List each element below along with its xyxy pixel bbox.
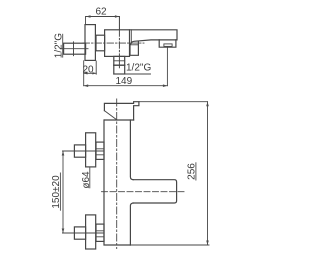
- top union pipe: [74, 145, 85, 157]
- top union flange: [86, 133, 96, 167]
- svg-text:1/2"G: 1/2"G: [54, 33, 65, 58]
- internal vertical line / outlet axis: [118, 17, 120, 30]
- pipe centerline: [61, 48, 88, 50]
- body right edge upper: [130, 120, 133, 180]
- connector: [96, 35, 105, 51]
- svg-text:62: 62: [95, 7, 107, 18]
- wall union pipe: [64, 43, 86, 54]
- handle lever: [104, 102, 138, 120]
- dim 149 arrows: [84, 84, 168, 87]
- dim 20: [84, 61, 97, 86]
- spout arm (front view): [133, 180, 177, 203]
- svg-text:1/2"G: 1/2"G: [126, 63, 151, 74]
- aerator inner: [164, 44, 172, 47]
- underline 1/2"G rotated: [62, 34, 64, 58]
- dim 150+-20 line: [62, 151, 64, 233]
- aerator outer: [159, 40, 176, 47]
- body (top view): [105, 30, 130, 57]
- underline o64 leader: [89, 167, 91, 188]
- top union axis: [63, 150, 104, 152]
- dim 150 arrows: [62, 151, 65, 233]
- bottom union flange: [86, 215, 96, 249]
- svg-text:150±20: 150±20: [51, 175, 62, 209]
- bottom union nut lines: [96, 231, 104, 237]
- wall plate: [85, 25, 95, 61]
- top union nut lines: [96, 149, 104, 155]
- outlet thread lines: [114, 60, 125, 62]
- underline 150+-20: [59, 173, 61, 211]
- dim 62 line: [86, 17, 120, 30]
- junction box under spout: [130, 42, 138, 56]
- dim 256 line: [130, 102, 209, 245]
- bottom union pipe: [74, 227, 85, 239]
- body (front view): [104, 120, 130, 245]
- main centerline: [83, 42, 144, 44]
- handle diagonal: [104, 111, 117, 120]
- underline 256: [195, 162, 197, 180]
- outlet label underline: [114, 73, 151, 75]
- svg-text:149: 149: [115, 76, 132, 87]
- vertical centerline: [116, 99, 118, 249]
- dim 62 arrows: [86, 15, 119, 18]
- pipe center tick: [73, 42, 75, 56]
- junction box joint line: [130, 44, 138, 46]
- arm centerline: [102, 191, 185, 193]
- spout joint line: [130, 30, 132, 44]
- dim 149 line: [84, 47, 168, 86]
- dim 256 arrows: [206, 102, 209, 245]
- svg-text:20: 20: [82, 64, 94, 75]
- bottom union axis: [63, 232, 104, 234]
- handle base line: [105, 119, 134, 121]
- body right edge lower: [130, 203, 133, 245]
- top union nut: [96, 142, 104, 159]
- bottom union nut: [96, 224, 104, 241]
- outlet under body: [114, 56, 125, 74]
- spout (top view): [130, 30, 178, 45]
- svg-text:256: 256: [187, 163, 198, 180]
- dim 20 arrows: [84, 72, 97, 74]
- svg-text:ø64: ø64: [81, 171, 92, 189]
